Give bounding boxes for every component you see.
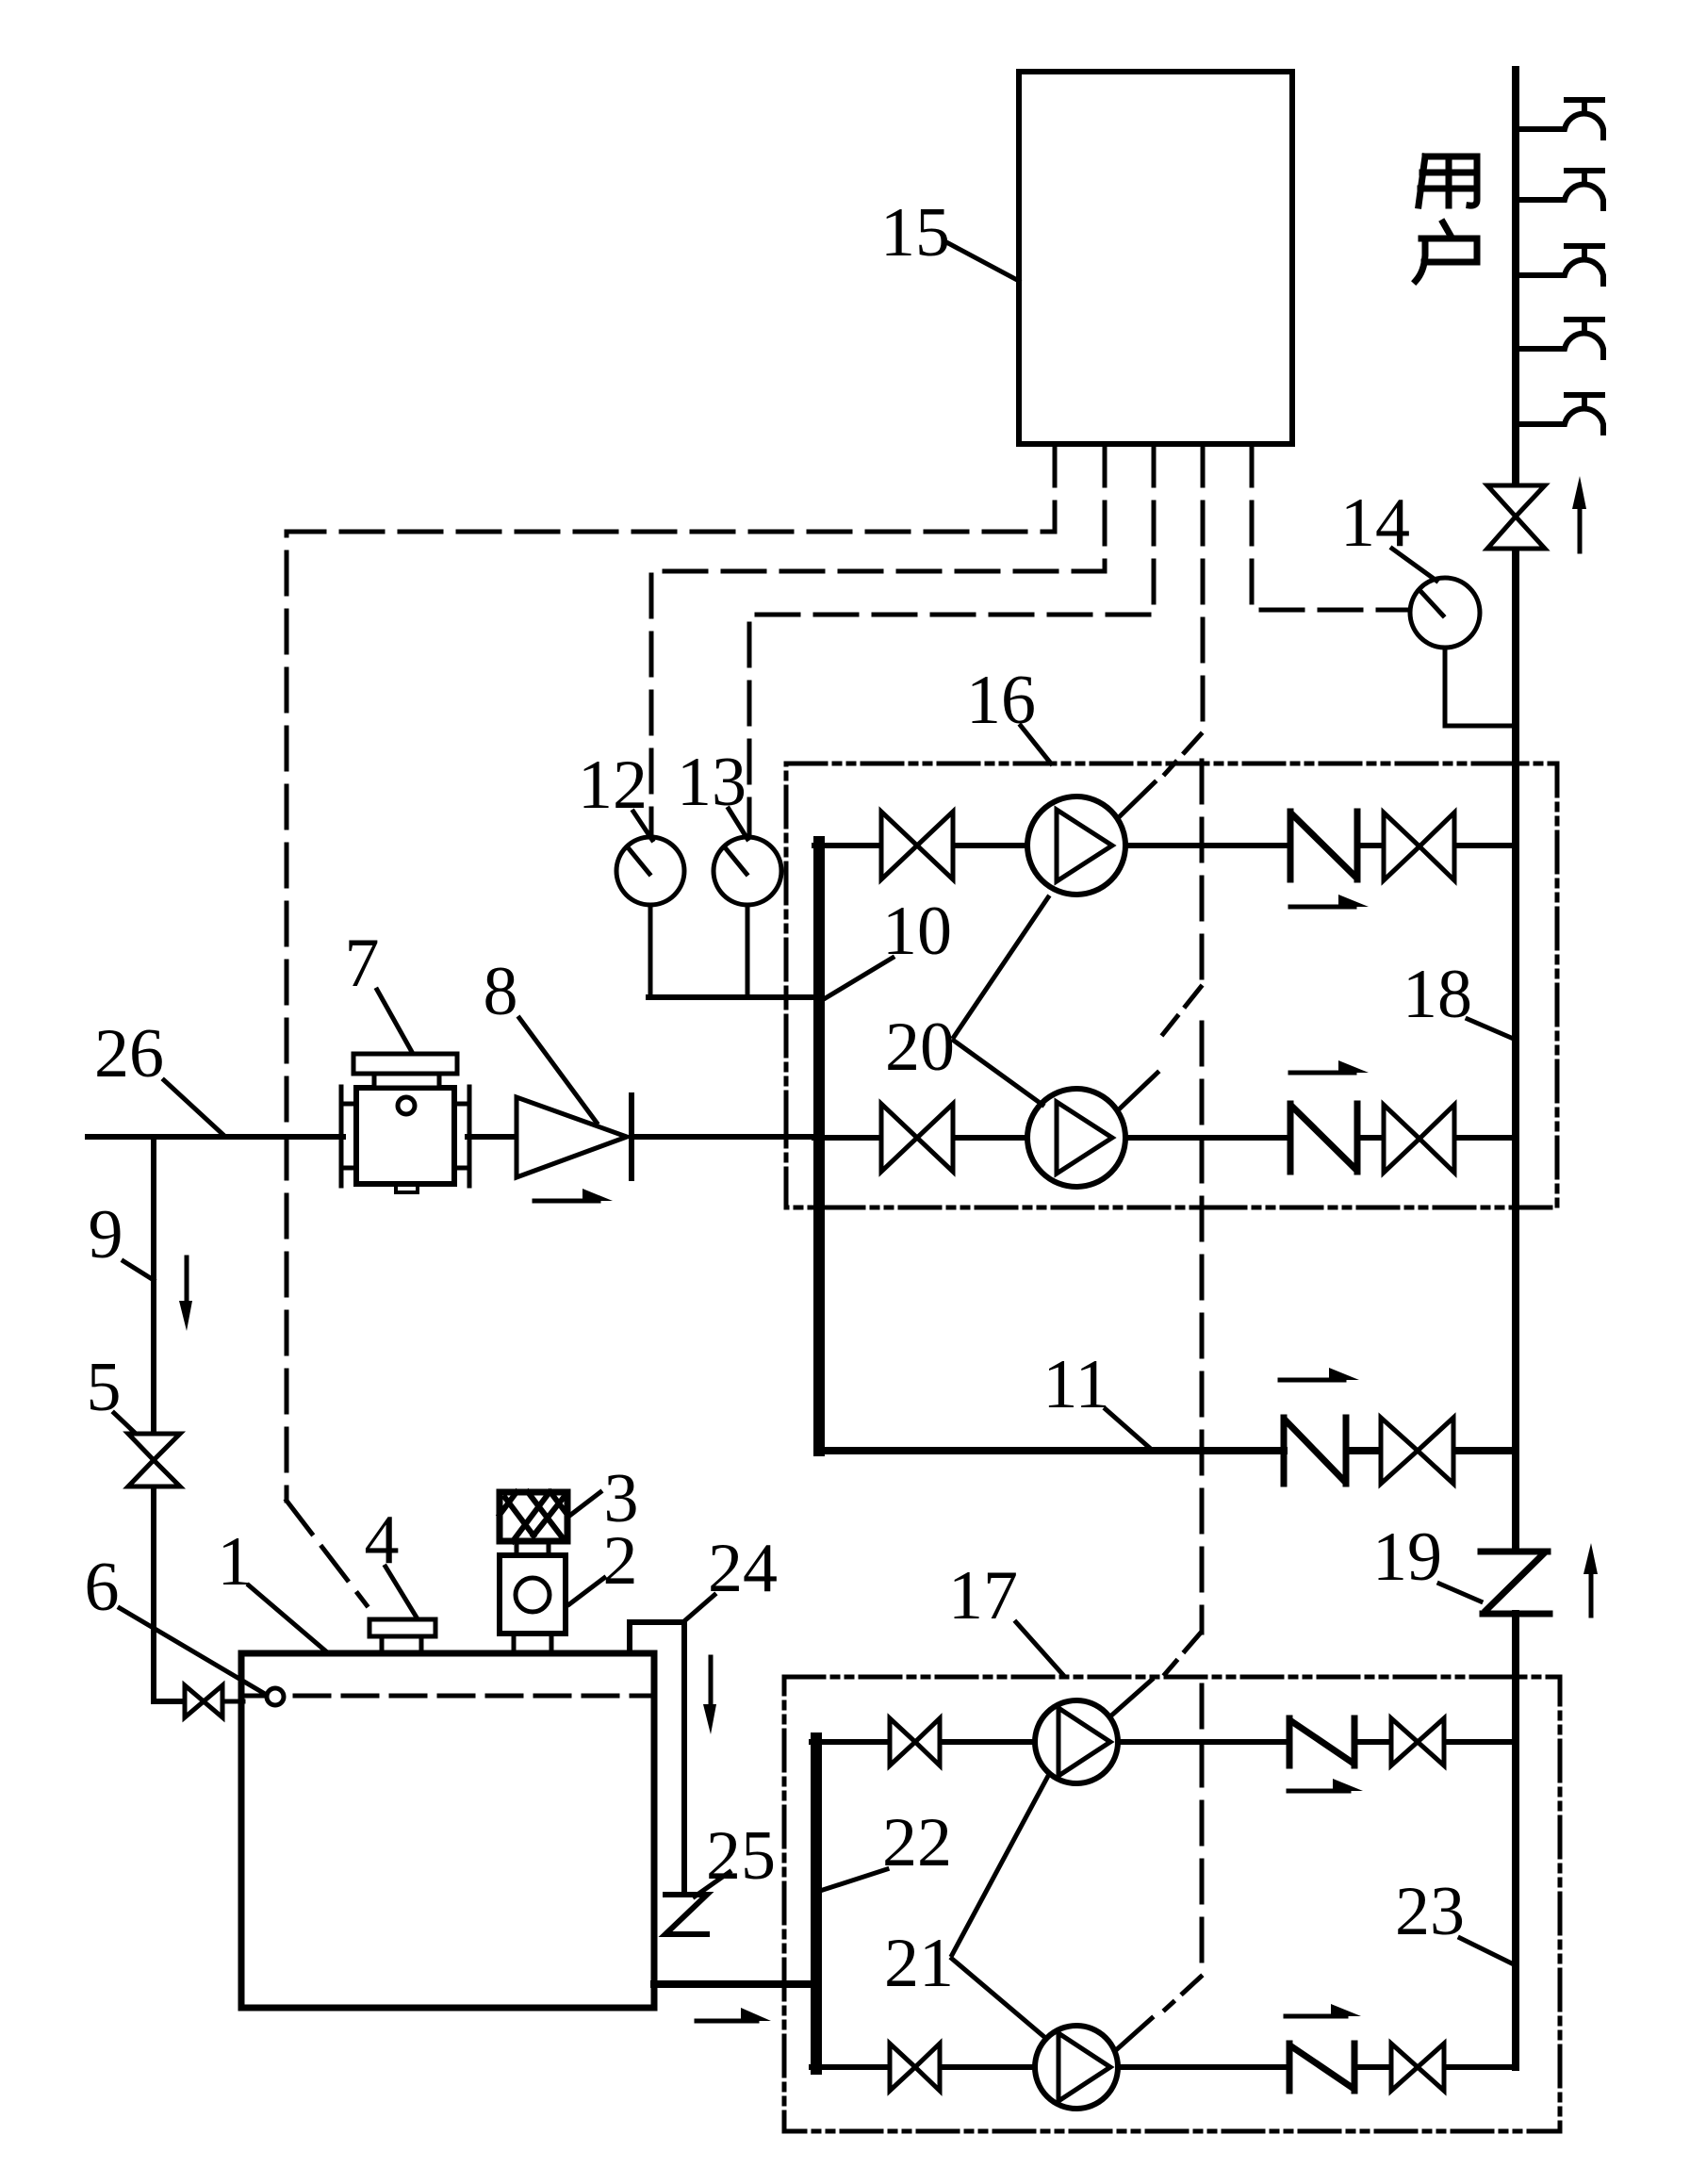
drain symbol 25 [665, 1895, 707, 1934]
leader 22 [823, 1869, 887, 1890]
faucet stub 2 [1516, 171, 1603, 208]
svg-text:1: 1 [218, 1523, 253, 1601]
leader 23 [1460, 1938, 1516, 1965]
leaders 20 to both pumps [954, 897, 1048, 1105]
faucet stub 4 [1516, 320, 1603, 357]
pump 20a [1027, 796, 1125, 895]
gauge 12 stem [648, 905, 653, 997]
leader 7 [377, 990, 412, 1052]
main inlet pipe 26 [88, 1134, 814, 1140]
controller box 15 [1019, 72, 1292, 444]
gate valve upper suction 17 [890, 1718, 940, 1765]
flow arrow line 11 [1280, 1378, 1344, 1383]
leader 12 [633, 812, 652, 840]
gate valve 5 [128, 1434, 180, 1486]
gauge junction line to header [648, 994, 819, 1000]
float ball [267, 1688, 284, 1705]
suction header line 22 [811, 1738, 822, 2069]
leader 4 [386, 1567, 417, 1617]
bypass line 11 [819, 1447, 1516, 1454]
signal line drop 2 from box 15 to gauge 12 [651, 444, 1105, 837]
leader 17 [1016, 1622, 1063, 1675]
svg-text:13: 13 [677, 744, 747, 821]
pump 20b [1027, 1089, 1125, 1187]
pressure reducing valve 8 [517, 1097, 627, 1177]
svg-text:8: 8 [484, 953, 518, 1030]
air filter 3 [500, 1492, 567, 1541]
faucet stub 3 [1516, 246, 1603, 284]
faucet stub 1 [1516, 100, 1603, 138]
flow meter 7 body [356, 1088, 454, 1184]
flow arrow under outlet [697, 2019, 757, 2024]
bypass pipe 9 (down) [154, 1137, 185, 1701]
flow arrow down beside pipe 24 [709, 1657, 714, 1706]
gate valve lower discharge 17 [1391, 2044, 1444, 2091]
svg-text:21: 21 [884, 1925, 954, 2002]
svg-text:12: 12 [578, 747, 648, 824]
leader 6 [120, 1608, 265, 1694]
gate valve lower suction [881, 1104, 953, 1172]
signal line drop 1 from box 15 to level device 4 [287, 444, 1055, 1605]
text 户 (users) [1416, 222, 1477, 281]
lower branch pipe of group 17 [812, 2064, 1516, 2070]
leader 8 [519, 1018, 597, 1123]
flow arrow after valve 8 [534, 1199, 599, 1204]
text 用 (users) [1419, 156, 1477, 205]
pump 21b [1035, 2026, 1118, 2109]
svg-text:6: 6 [85, 1549, 120, 1626]
pressure gauge 13 [714, 837, 781, 905]
svg-text:20: 20 [885, 1009, 955, 1086]
level transmitter 4 [369, 1619, 435, 1636]
gate valve upper discharge [1384, 813, 1454, 880]
signal line drop 4 from box 15 to pumps [1202, 444, 1203, 1977]
leader 10 [824, 958, 893, 999]
svg-text:15: 15 [880, 194, 950, 271]
flow arrow upper branch [1290, 905, 1354, 910]
leader 26 [164, 1080, 223, 1135]
leader 11 [1106, 1409, 1153, 1451]
svg-text:9: 9 [89, 1196, 123, 1273]
leader 1 [249, 1585, 326, 1651]
leader 3 [568, 1492, 600, 1517]
leaders 21 to both pumps [952, 1776, 1048, 2037]
svg-text:22: 22 [882, 1804, 952, 1881]
leader 2 [569, 1578, 604, 1604]
flow arrow lower branch 17 [1286, 2014, 1346, 2019]
svg-text:11: 11 [1042, 1346, 1109, 1423]
gate valve lower suction 17 [890, 2044, 940, 2091]
svg-text:17: 17 [948, 1557, 1018, 1634]
leader 16 [1021, 726, 1051, 764]
svg-text:19: 19 [1372, 1519, 1442, 1596]
gauge 13 stem [746, 905, 750, 997]
faucet stub 5 [1516, 395, 1603, 433]
leader 13 [729, 809, 747, 839]
pump 21a [1035, 1700, 1118, 1783]
check valve lower [1290, 1104, 1357, 1172]
pump group enclosure box 16 [786, 764, 1557, 1207]
svg-text:24: 24 [708, 1530, 778, 1607]
svg-text:18: 18 [1403, 956, 1472, 1033]
svg-text:14: 14 [1340, 484, 1410, 562]
pump control link leaders (solid) [1110, 782, 1157, 2050]
upper branch pipe of group 17 [812, 1739, 1516, 1745]
signal line drop 3 from box 15 to gauge 13 [749, 444, 1154, 837]
gauge 14 stem to riser [1445, 648, 1516, 726]
check valve upper [1290, 812, 1357, 879]
pressure sustaining valve 19 [1481, 1552, 1550, 1614]
float valve 6 [185, 1685, 222, 1717]
gate valve lower discharge [1384, 1105, 1454, 1173]
flow arrow up beside valve 19 [1589, 1572, 1594, 1616]
leader 18 [1468, 1019, 1516, 1040]
leader 14 [1392, 549, 1436, 581]
water tank 1 [241, 1653, 654, 2008]
water level dashed line [247, 1694, 648, 1699]
svg-text:4: 4 [365, 1502, 400, 1579]
check valve lower 17 [1289, 2044, 1354, 2091]
flow arrow down on pipe 9 [185, 1257, 189, 1304]
pump group enclosure box 17 [784, 1677, 1560, 2131]
leader 15 [948, 243, 1019, 281]
flow arrow up beside top valve [1578, 504, 1583, 551]
flow meter 7 flanges [341, 1087, 469, 1186]
sensor body 2 [500, 1555, 566, 1634]
signal line drop 5 from box 15 to gauge 14 [1252, 444, 1408, 610]
svg-text:16: 16 [966, 662, 1036, 739]
check valve upper 17 [1289, 1718, 1354, 1765]
suction header line 10 [813, 842, 825, 1451]
flow arrow lower branch [1290, 1071, 1354, 1076]
pressure gauge 12 [616, 837, 684, 905]
check valve line 11 [1284, 1418, 1346, 1484]
lower branch pipe of group 16 [814, 1135, 1516, 1141]
svg-text:7: 7 [345, 925, 380, 1002]
gate valve upper suction [881, 812, 953, 879]
leader 24 [685, 1595, 714, 1620]
upper branch pipe of group 16 [814, 843, 1516, 848]
leader 9 [123, 1261, 154, 1280]
pressure gauge 14 [1410, 578, 1480, 648]
gate valve upper discharge 17 [1391, 1718, 1444, 1765]
gate valve on riser (top) [1487, 485, 1545, 549]
svg-text:26: 26 [94, 1015, 164, 1092]
svg-text:23: 23 [1395, 1873, 1465, 1950]
flow arrow upper branch 17 [1288, 1789, 1349, 1794]
overflow pipe 24 [630, 1622, 684, 1893]
leader 25 [695, 1872, 730, 1897]
main riser pipe to users [1512, 70, 1519, 2067]
leader 19 [1439, 1584, 1481, 1601]
svg-text:2: 2 [603, 1522, 638, 1600]
tank outlet pipe [654, 1980, 816, 1988]
gate valve line 11 [1381, 1418, 1453, 1484]
leader 5 [114, 1413, 135, 1433]
